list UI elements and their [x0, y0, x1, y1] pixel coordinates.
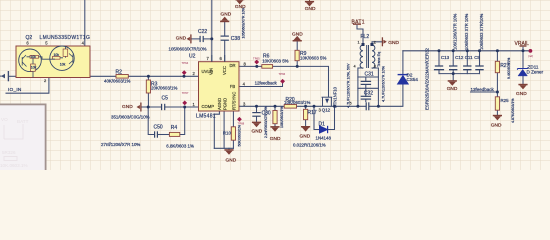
svg-text:DR: DR — [230, 63, 236, 68]
svg-text:C9: C9 — [474, 55, 480, 60]
svg-text:20K/0603/1%: 20K/0603/1% — [151, 85, 177, 90]
svg-text:C22: C22 — [198, 29, 207, 35]
svg-text:LM5481: LM5481 — [196, 114, 216, 120]
svg-text:GND: GND — [491, 122, 502, 128]
svg-text:106/0603 X7R/10%: 106/0603 X7R/10% — [479, 13, 484, 50]
svg-text:R10: R10 — [223, 130, 232, 135]
svg-text:3: 3 — [374, 65, 376, 69]
svg-text:1N4148: 1N4148 — [316, 135, 332, 140]
svg-text:5R326: 5R326 — [2, 150, 16, 155]
svg-text:IO_IN: IO_IN — [8, 87, 22, 93]
svg-text:105/0603/X7R 10%: 105/0603/X7R 10% — [241, 7, 245, 39]
svg-text:10K/0603 5%: 10K/0603 5% — [262, 58, 288, 63]
svg-text:VO: VO — [1, 117, 8, 122]
svg-text:STN1NF10: STN1NF10 — [333, 86, 338, 108]
svg-text:R4: R4 — [171, 125, 178, 131]
svg-text:TP66: TP66 — [279, 72, 286, 76]
svg-text:R2: R2 — [116, 70, 123, 76]
svg-text:GND: GND — [122, 104, 133, 110]
svg-text:D1: D1 — [319, 121, 326, 127]
svg-text:R25: R25 — [501, 98, 510, 103]
svg-text:GND: GND — [226, 158, 237, 164]
svg-text:TP67: TP67 — [182, 91, 189, 95]
svg-text:(ref): (ref) — [528, 54, 533, 58]
svg-text:10k: 10k — [60, 63, 66, 67]
svg-text:12feedback: 12feedback — [255, 81, 278, 86]
svg-text:R17: R17 — [308, 110, 317, 116]
svg-text:GND: GND — [221, 11, 232, 17]
svg-text:TP65: TP65 — [253, 57, 260, 61]
svg-text:COMP: COMP — [202, 104, 215, 109]
svg-text:D Zener: D Zener — [527, 70, 544, 75]
svg-text:10k: 10k — [30, 55, 36, 59]
svg-text:4.87K/0603/1%: 4.87K/0603/1% — [511, 98, 515, 123]
svg-text:4: 4 — [354, 65, 356, 69]
svg-text:10K/0603 5%: 10K/0603 5% — [300, 56, 326, 61]
svg-text:C32: C32 — [364, 90, 373, 96]
svg-text:C13: C13 — [441, 55, 450, 60]
svg-text:FL2: FL2 — [361, 34, 370, 40]
svg-text:10K/0603/1%: 10K/0603/1% — [284, 100, 310, 105]
svg-text:10k: 10k — [31, 66, 37, 70]
svg-text:PGND: PGND — [222, 98, 227, 110]
svg-text:VIN: VIN — [209, 68, 214, 75]
svg-text:U2: U2 — [189, 53, 196, 59]
svg-text:GND: GND — [270, 136, 281, 142]
svg-text:50K/0603/1%: 50K/0603/1% — [238, 124, 242, 146]
svg-text:Trans Eq: Trans Eq — [377, 52, 381, 67]
svg-text:10K.0603.1%: 10K.0603.1% — [0, 163, 28, 168]
svg-text:GND: GND — [176, 36, 187, 41]
svg-text:9.4K/0603/1%: 9.4K/0603/1% — [507, 58, 511, 79]
svg-text:C31: C31 — [365, 72, 374, 78]
svg-text:RT/SYNC: RT/SYNC — [232, 92, 237, 110]
svg-text:4.7UF/1206/X7R 10%: 4.7UF/1206/X7R 10% — [381, 65, 385, 102]
svg-text:AGND: AGND — [217, 98, 222, 110]
svg-text:13feedback: 13feedback — [471, 87, 495, 92]
svg-text:GND: GND — [305, 6, 316, 12]
svg-text:0.022R/1206/1%: 0.022R/1206/1% — [293, 142, 326, 147]
svg-text:C38: C38 — [231, 36, 240, 42]
svg-text:GND: GND — [252, 128, 263, 134]
svg-text:27nf/1206/X7R 10%: 27nf/1206/X7R 10% — [101, 142, 140, 147]
svg-text:VCC: VCC — [222, 66, 227, 75]
svg-text:2.2nF/0603/X7R 10%: 2.2nF/0603/X7R 10% — [264, 106, 268, 138]
svg-text:C50: C50 — [154, 125, 163, 131]
svg-text:CS54: CS54 — [407, 77, 419, 82]
svg-text:ESR025/10A/2X22MAH/CER32: ESR025/10A/2X22MAH/CER32 — [425, 47, 430, 110]
svg-text:10k: 10k — [54, 53, 60, 57]
svg-text:1: 1 — [358, 41, 360, 45]
svg-text:4.7UF/1206/X7R 10%, 50V: 4.7UF/1206/X7R 10%, 50V — [347, 63, 351, 108]
svg-text:GND: GND — [447, 86, 458, 92]
svg-text:BATT: BATT — [17, 119, 29, 124]
svg-text:2: 2 — [374, 41, 376, 45]
svg-text:FB: FB — [230, 84, 236, 89]
svg-text:C5: C5 — [162, 96, 169, 102]
svg-text:351/0603/C0G/10%: 351/0603/C0G/10% — [111, 114, 150, 119]
svg-text:GND: GND — [235, 4, 246, 10]
svg-text:ZD11: ZD11 — [528, 64, 539, 69]
svg-text:106/1206/X7R 10%: 106/1206/X7R 10% — [453, 13, 458, 50]
svg-text:C12: C12 — [455, 55, 464, 60]
svg-text:Q12: Q12 — [322, 108, 331, 113]
svg-text:C11: C11 — [465, 55, 473, 60]
svg-text:GND: GND — [300, 134, 311, 140]
svg-text:106/0603 X7R 10%: 106/0603 X7R 10% — [464, 13, 469, 50]
svg-text:TP68: TP68 — [238, 121, 245, 125]
svg-text:GND: GND — [388, 40, 399, 46]
svg-text:6.8K/0603 1%: 6.8K/0603 1% — [166, 143, 194, 148]
svg-text:10K/0603/1%: 10K/0603/1% — [280, 106, 284, 128]
svg-text:40K/0603/1%: 40K/0603/1% — [104, 79, 130, 84]
svg-text:TP64: TP64 — [182, 61, 189, 65]
svg-text:105/0603/X7R/10%: 105/0603/X7R/10% — [169, 46, 207, 51]
svg-text:GND: GND — [516, 91, 527, 97]
